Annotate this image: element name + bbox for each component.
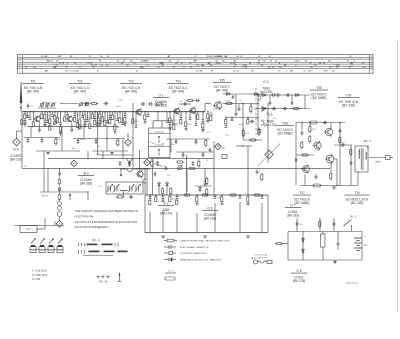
aerial box lead bbox=[37, 228, 45, 230]
resistor S7-1 bbox=[59, 126, 61, 131]
wire X8-0 bbox=[82, 112, 84, 116]
resistor S12-0 bbox=[89, 124, 91, 129]
junction dot det1 bbox=[242, 103, 243, 104]
resistor RE1 bbox=[205, 139, 207, 148]
svg-text:10k: 10k bbox=[95, 122, 98, 124]
wire T1-1 bbox=[149, 198, 151, 200]
svg-text:0.01: 0.01 bbox=[239, 124, 243, 126]
AGC string wire bbox=[59, 168, 61, 172]
R49 leads b bbox=[322, 247, 324, 260]
resistor S29-0 bbox=[247, 119, 249, 124]
transistor Q10 T09 bbox=[324, 127, 333, 137]
svg-text:0.01: 0.01 bbox=[254, 108, 258, 110]
wire S19-0 bbox=[124, 112, 126, 114]
transistor T09 label bbox=[338, 94, 360, 108]
wire X20-0 bbox=[173, 112, 175, 125]
svg-text:FM (FONCTIONNEMENT): FM (FONCTIONNEMENT) bbox=[75, 225, 109, 229]
svg-text:2.2k: 2.2k bbox=[225, 135, 229, 137]
tone right vertical bbox=[267, 195, 269, 233]
svg-text:100: 100 bbox=[217, 145, 220, 147]
band switch box SW4 bbox=[57, 247, 63, 253]
R50 lead bbox=[282, 243, 288, 245]
wire T6-0 bbox=[196, 195, 198, 197]
svg-text:48 - 3: 48 - 3 bbox=[168, 271, 174, 273]
wire S8-0 bbox=[64, 112, 66, 117]
svg-text:T05: T05 bbox=[219, 79, 225, 83]
driver stage rail bbox=[296, 122, 345, 124]
test point node TP2 bbox=[125, 139, 132, 146]
junction T6 bbox=[196, 194, 197, 195]
diode D3a bbox=[261, 94, 267, 97]
wire S5-0 bbox=[49, 112, 51, 119]
wire S12-0 bbox=[89, 112, 91, 124]
top reference table frame bbox=[18, 55, 374, 74]
transistor Q6 T05 bbox=[213, 101, 222, 111]
junction S11 bbox=[84, 111, 85, 112]
svg-text:(BF 494): (BF 494) bbox=[172, 90, 184, 94]
resistor S1-0 bbox=[24, 114, 31, 119]
vertical x152.5 bbox=[152, 168, 154, 195]
switch contact SK1-3 bbox=[261, 120, 264, 125]
band switch box SW2 bbox=[39, 247, 45, 253]
TP4 diagonal wire bbox=[257, 144, 280, 167]
transistor T02 label bbox=[69, 80, 91, 94]
svg-text:(BC 548B): (BC 548B) bbox=[312, 96, 327, 100]
ground GT3 bbox=[246, 236, 250, 238]
capacitor C42 bbox=[337, 238, 340, 250]
junction S30 bbox=[225, 117, 226, 118]
sub-rail C bbox=[36, 150, 80, 152]
junction S22 bbox=[169, 111, 170, 112]
svg-text:330: 330 bbox=[142, 174, 145, 176]
svg-text:3 = FM: 3 = FM bbox=[32, 277, 40, 281]
SK-A baseline bbox=[83, 254, 113, 256]
capacitor T1-0 bbox=[149, 197, 152, 199]
driver top stub b bbox=[309, 123, 311, 126]
junction S15 bbox=[104, 111, 105, 112]
capacitor CB1 bbox=[77, 139, 80, 144]
wire S22-0 bbox=[169, 112, 171, 118]
junction dot det2 bbox=[257, 103, 258, 104]
tone drop 3 bbox=[176, 212, 178, 233]
capacitor S27-1 bbox=[207, 120, 210, 122]
AF wire y169 b bbox=[134, 168, 150, 170]
diode D2b bbox=[253, 93, 259, 96]
ground GT2 bbox=[203, 236, 207, 238]
wire S1-0 bbox=[24, 112, 26, 114]
drop v2 bbox=[102, 151, 104, 159]
wire S20-0 bbox=[132, 112, 134, 119]
switch contact SK1-2 bbox=[261, 106, 264, 111]
battery feed vertical bbox=[357, 172, 359, 186]
resistor R23 bbox=[225, 101, 234, 105]
capacitor CF1 bbox=[182, 152, 185, 157]
vertical x186.5 bbox=[186, 155, 188, 195]
junction T5 bbox=[176, 194, 177, 195]
transformer top junction bbox=[367, 147, 368, 148]
IF filter block bbox=[149, 128, 171, 158]
AGC box bottom bbox=[98, 154, 134, 156]
svg-text:0.047: 0.047 bbox=[81, 139, 86, 141]
wire X19-0 bbox=[166, 112, 168, 121]
svg-text:5p: 5p bbox=[162, 143, 164, 145]
AF ground triangle bbox=[120, 175, 123, 177]
svg-text:0.01: 0.01 bbox=[80, 111, 84, 113]
resistor R33 bbox=[253, 194, 262, 196]
AVC vertical wire bbox=[213, 146, 215, 195]
short wire y146 bbox=[236, 145, 252, 147]
legend polyester symbol bbox=[164, 251, 176, 254]
diode D1 label bbox=[153, 94, 169, 108]
wire S16-0 bbox=[109, 112, 111, 116]
capacitor C35 bbox=[301, 130, 304, 135]
wire X21-0 bbox=[189, 112, 191, 118]
wire S14-0 bbox=[99, 112, 101, 114]
resistor RD1 bbox=[250, 105, 252, 114]
diode D4 sym bbox=[58, 187, 61, 193]
transistor T03 label bbox=[120, 80, 142, 94]
wire S29-0 bbox=[247, 118, 249, 120]
svg-text:(BF 494): (BF 494) bbox=[27, 90, 39, 94]
legend electrolytic symbol bbox=[164, 258, 176, 262]
svg-text:SK - C: SK - C bbox=[350, 216, 357, 219]
resistor R44 bbox=[301, 141, 303, 150]
diode D2 label bbox=[158, 202, 174, 216]
CB2 stub bbox=[95, 139, 97, 141]
det vertical a bbox=[238, 104, 240, 108]
driver dot2 bbox=[309, 122, 310, 123]
wire S3-0 bbox=[33, 112, 35, 122]
diode D5a bbox=[261, 107, 267, 110]
wire S30-0 bbox=[225, 118, 227, 120]
transistor Q13 T07 bbox=[301, 164, 309, 173]
svg-text:0.01: 0.01 bbox=[59, 132, 63, 134]
resistor R40 bbox=[58, 193, 60, 202]
wire T10s-0 bbox=[247, 195, 249, 197]
IF vertical v5 bbox=[170, 139, 172, 152]
resistor R31 bbox=[201, 194, 210, 196]
tone net vertical 2 bbox=[158, 188, 160, 196]
wire X18-0 bbox=[147, 112, 149, 115]
transistor T04 label bbox=[167, 80, 189, 94]
resistor S21-0 bbox=[144, 115, 146, 120]
capacitor T3-0 bbox=[162, 197, 165, 199]
tuning gang trimmer 1 bbox=[106, 184, 113, 193]
wire X2-0 bbox=[41, 112, 43, 114]
tuning gang trimmer 2 bbox=[113, 184, 120, 193]
trimmer S6-1 bbox=[53, 121, 58, 126]
fuse F1 oval bbox=[313, 184, 321, 187]
rail dot h bbox=[202, 111, 203, 112]
wire S7-1 bbox=[60, 125, 62, 127]
tone bottom rail bbox=[145, 232, 268, 234]
capacitor C25 bbox=[119, 161, 122, 166]
capacitor T6-1 bbox=[196, 203, 199, 205]
wire S25-0 bbox=[197, 112, 199, 115]
wire T4-0 bbox=[169, 195, 171, 197]
wire X22-0 bbox=[195, 112, 197, 124]
table coordinate numbers bbox=[25, 56, 367, 72]
capacitor X13-0 bbox=[106, 121, 109, 123]
junction S18 bbox=[119, 111, 120, 112]
svg-text:(AA 119): (AA 119) bbox=[264, 123, 276, 127]
capacitor S24-1 bbox=[185, 128, 188, 130]
svg-text:(BA 216): (BA 216) bbox=[10, 158, 22, 162]
trimmer capacitor CT1 bbox=[40, 102, 45, 107]
wire crossover hump 1 bbox=[125, 159, 134, 162]
test point node TP5 bbox=[56, 221, 63, 228]
AGC box vertical left bbox=[97, 112, 99, 155]
wire S26-0 bbox=[202, 112, 204, 120]
junction S19 bbox=[124, 111, 125, 112]
svg-text:1k: 1k bbox=[317, 150, 319, 152]
resistor X12-0 bbox=[101, 117, 103, 122]
capacitor S2-0 bbox=[29, 118, 32, 120]
wire S24-1 bbox=[185, 127, 187, 129]
ground S7 bbox=[59, 133, 63, 135]
capacitor S28-0 bbox=[231, 119, 234, 121]
svg-text:5p: 5p bbox=[84, 173, 86, 175]
wire S7-0 bbox=[60, 112, 62, 123]
svg-text:T10: T10 bbox=[354, 191, 360, 195]
transistor Q5 bbox=[189, 107, 196, 115]
capacitor T7-0 bbox=[214, 197, 222, 200]
junction S27 bbox=[207, 111, 208, 112]
sub-rail F bbox=[176, 151, 214, 153]
capacitor CE1 bbox=[175, 139, 178, 144]
wire S4-1 bbox=[44, 119, 46, 121]
band switch lever SW2 bbox=[40, 238, 45, 244]
long vertical x133 bbox=[132, 103, 134, 168]
resistor R32 bbox=[229, 194, 238, 196]
table row line 2 bbox=[18, 58, 374, 60]
capacitor C19 bbox=[249, 120, 254, 123]
table row line 5 bbox=[18, 65, 374, 67]
wire T8-0 bbox=[221, 195, 223, 197]
capacitor X18-0 bbox=[147, 115, 150, 117]
resistor R45b bbox=[330, 172, 332, 181]
capacitor C39 bbox=[295, 157, 298, 162]
wire X14-0 bbox=[112, 112, 114, 115]
transistor Q4 bbox=[173, 107, 180, 115]
resistor S11-0 bbox=[84, 115, 91, 120]
coil L2 bbox=[58, 206, 62, 210]
TP3 stub bbox=[213, 141, 215, 147]
band switch contact SW1 bbox=[31, 245, 35, 247]
battery BT1 bbox=[354, 235, 367, 251]
resistor RT4 bbox=[170, 188, 172, 195]
diode D3c bbox=[294, 94, 300, 97]
resistor R50 bbox=[275, 242, 284, 244]
link y186 bbox=[195, 185, 212, 187]
test point node TP0 bbox=[13, 138, 21, 146]
svg-text:D 6: D 6 bbox=[208, 207, 213, 211]
capacitor CV2 bbox=[209, 148, 212, 152]
CB1 stub bbox=[77, 139, 79, 141]
tuning gang center bar bbox=[120, 191, 128, 198]
svg-text:47: 47 bbox=[98, 146, 100, 148]
wire S10-0 bbox=[79, 112, 81, 120]
diode column wire bbox=[267, 103, 269, 163]
wire S4-end bbox=[44, 123, 46, 124]
T10 emitter drop bbox=[330, 163, 332, 172]
battery feed wire 2 bbox=[319, 218, 321, 232]
wire X23-0 bbox=[210, 112, 212, 116]
tuning gang trimmer 4 bbox=[134, 184, 141, 193]
wire S18-0 bbox=[119, 112, 121, 118]
rail dot e bbox=[144, 111, 145, 112]
junction S2 bbox=[29, 111, 30, 112]
VC1 junction bbox=[87, 191, 88, 192]
band switch box SW1 bbox=[30, 247, 36, 253]
capacitor S30-1 bbox=[225, 126, 228, 128]
wire X5-0 bbox=[57, 112, 59, 118]
svg-text:1k: 1k bbox=[213, 109, 215, 111]
sub-rail B bbox=[73, 138, 125, 140]
capacitor CD2 bbox=[238, 107, 241, 111]
resistor R30 bbox=[183, 194, 192, 196]
capacitor C36 bbox=[339, 128, 342, 133]
wire crossover hump 2 bbox=[126, 169, 135, 172]
resistor R26 bbox=[292, 107, 301, 109]
band switch lever SW4 bbox=[58, 238, 63, 244]
table row line 4 bbox=[18, 63, 374, 65]
svg-text:(BA 218): (BA 218) bbox=[204, 217, 216, 221]
T05 input rail b bbox=[205, 103, 211, 105]
capacitor C34 bbox=[322, 121, 327, 124]
junction S13 bbox=[94, 111, 95, 112]
table right label column bbox=[368, 55, 370, 74]
capacitor C1 bbox=[27, 103, 34, 108]
switch drop w1 bbox=[43, 185, 45, 192]
wire S23-0 bbox=[180, 112, 182, 116]
capacitor T9-0 bbox=[239, 197, 242, 199]
TP0 stub bbox=[16, 131, 18, 138]
svg-text:100: 100 bbox=[167, 175, 170, 177]
resistor R43 bbox=[309, 135, 311, 144]
band switch box SW3 bbox=[48, 247, 54, 253]
capacitor C21a bbox=[285, 93, 290, 96]
tone left vertical bbox=[144, 168, 146, 232]
SK-B arrow bbox=[118, 273, 122, 282]
table row line 6 bbox=[18, 68, 374, 70]
tone drop 2 bbox=[162, 210, 164, 233]
svg-text:68k: 68k bbox=[158, 165, 161, 167]
resistor T8-0 bbox=[221, 196, 223, 201]
tone drop 6 bbox=[239, 202, 241, 233]
wire T6-1 bbox=[196, 202, 198, 204]
rail dot b bbox=[74, 111, 75, 112]
svg-text:5p: 5p bbox=[211, 114, 213, 116]
svg-text:SK - A: SK - A bbox=[92, 238, 100, 242]
legend extra row 2 bbox=[165, 277, 175, 280]
diode D7 sym bbox=[302, 237, 305, 243]
resistor T4-0 bbox=[169, 196, 177, 201]
capacitor CV1 bbox=[256, 169, 259, 174]
resistor S6-0 bbox=[54, 115, 61, 120]
wire S14-1 bbox=[99, 119, 101, 121]
wire X7-0 bbox=[77, 112, 79, 123]
svg-text:330: 330 bbox=[47, 115, 50, 117]
ground S1 bbox=[23, 124, 27, 126]
RA1 stub bbox=[55, 138, 57, 140]
junction S16 bbox=[109, 111, 110, 112]
band bus bottom line bbox=[22, 167, 272, 169]
top link wire bbox=[60, 103, 78, 105]
VC1 link wire bbox=[40, 191, 88, 193]
rail dot a bbox=[49, 111, 50, 112]
trimmer S10-1 bbox=[78, 125, 83, 130]
svg-text:10k: 10k bbox=[24, 115, 27, 117]
capacitor C37 bbox=[340, 142, 345, 147]
svg-text:ELECTRICAL: ELECTRICAL bbox=[255, 254, 269, 257]
capacitor C10b bbox=[103, 102, 108, 105]
legend flat ceramic symbol bbox=[164, 245, 176, 249]
wire X12-0 bbox=[102, 112, 104, 117]
ground S14 bbox=[98, 124, 102, 126]
junction T10s bbox=[247, 194, 248, 195]
svg-text:0.047: 0.047 bbox=[116, 106, 121, 108]
capacitor S19-0 bbox=[124, 114, 127, 116]
diode D3 label bbox=[260, 80, 272, 94]
svg-text:(EAR): (EAR) bbox=[375, 161, 381, 164]
svg-text:6V: 6V bbox=[364, 244, 367, 247]
junction S3 bbox=[33, 111, 34, 112]
wire S13-1 bbox=[94, 119, 96, 121]
capacitor S16-0 bbox=[109, 116, 112, 118]
driver dot3 bbox=[339, 122, 340, 123]
svg-text:SK - B: SK - B bbox=[99, 280, 107, 284]
wire X1-0 bbox=[27, 112, 29, 116]
wire T5-1 bbox=[176, 198, 178, 200]
tone rail bbox=[145, 194, 268, 196]
capacitor C22 bbox=[282, 107, 287, 110]
junction S21 bbox=[144, 111, 145, 112]
diode D3b label bbox=[78, 172, 94, 186]
drop v1 bbox=[87, 151, 89, 159]
transistor Q2 bbox=[66, 115, 73, 123]
wire T2-0 bbox=[155, 195, 157, 197]
CA1 stub bbox=[27, 138, 29, 140]
wire T10s-1 bbox=[247, 202, 249, 204]
IF can feed bbox=[157, 112, 159, 121]
ladder stub 1 bbox=[269, 95, 271, 101]
transistor T07 label bbox=[293, 191, 311, 205]
resistor S4-0 bbox=[44, 114, 51, 119]
resistor X20-0 bbox=[173, 125, 175, 130]
ear dashed wire bbox=[369, 157, 385, 159]
capacitor C21b bbox=[271, 107, 276, 110]
svg-text:2.2k: 2.2k bbox=[57, 139, 61, 141]
svg-text:POSITION FM: POSITION FM bbox=[75, 214, 94, 218]
driver top stub a bbox=[301, 123, 303, 130]
coil L1 bbox=[58, 202, 62, 206]
tone net vertical 5 bbox=[204, 168, 206, 182]
diode D6 sym bbox=[166, 182, 169, 188]
left bottom rail bbox=[14, 225, 64, 227]
battery box top bbox=[288, 231, 362, 233]
transistor T10 label bbox=[344, 191, 369, 205]
battery feed wire 3 bbox=[333, 218, 335, 232]
svg-text:T01: T01 bbox=[30, 80, 36, 84]
resistor R29 bbox=[116, 194, 125, 198]
wire S19-end bbox=[124, 122, 126, 123]
wire S17-1 bbox=[114, 130, 116, 132]
detector drop wire bbox=[257, 94, 259, 133]
svg-text:0.01: 0.01 bbox=[152, 143, 156, 145]
junction S7 bbox=[60, 111, 61, 112]
capacitor X1-0 bbox=[26, 116, 29, 118]
